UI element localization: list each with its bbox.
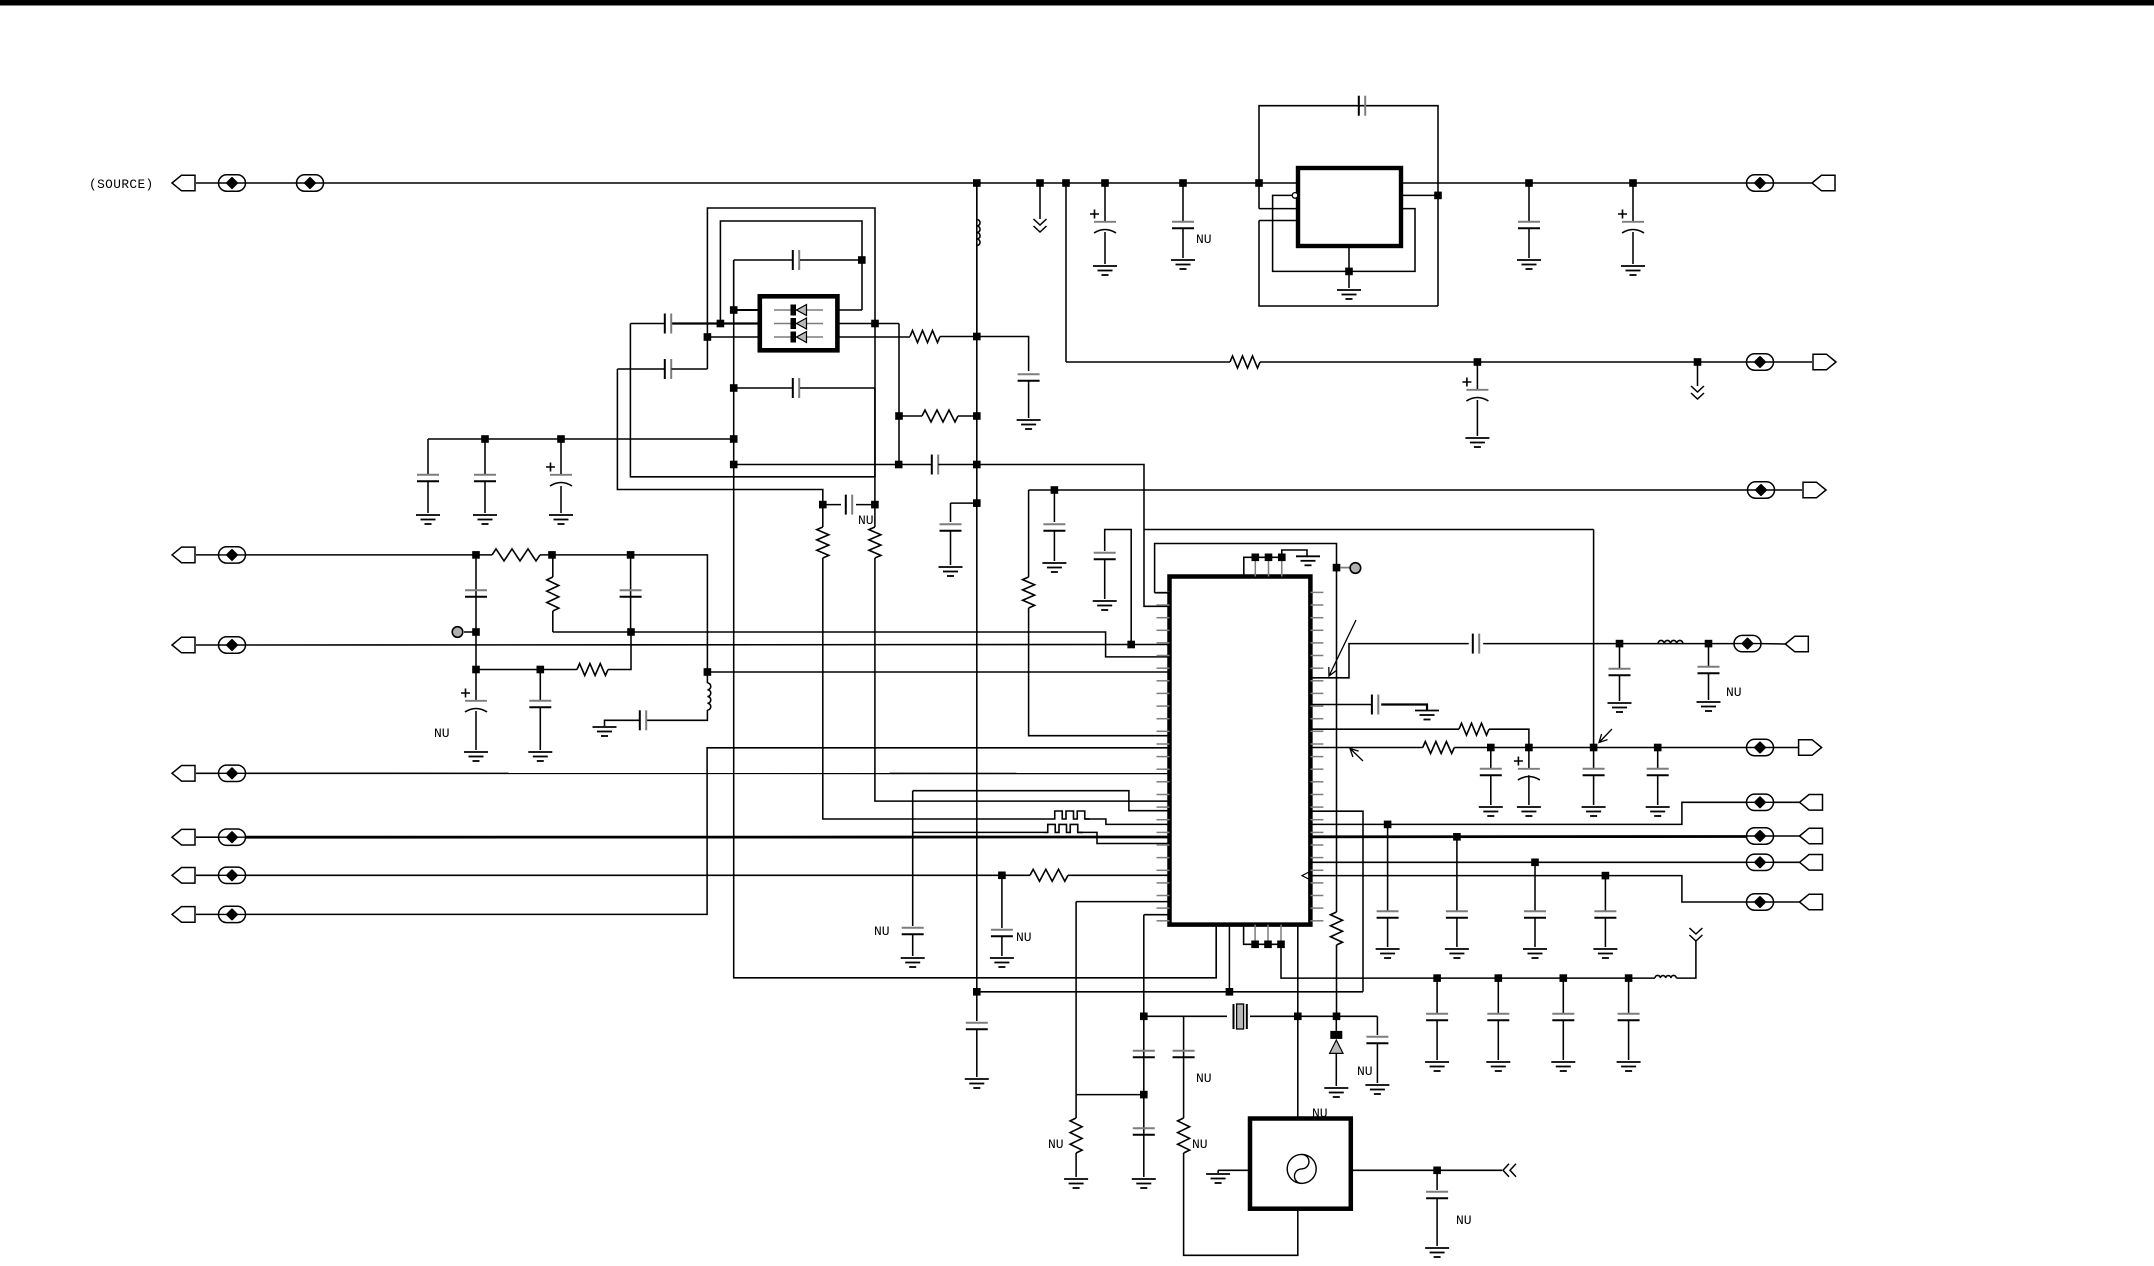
wire row7: [246, 748, 1170, 915]
ferrite bead FB17: [1747, 894, 1774, 910]
wire: [1436, 978, 1438, 1013]
wire: [475, 670, 477, 701]
wire: [196, 644, 219, 646]
capacitor C5: [1359, 96, 1365, 116]
junction: [1127, 641, 1135, 649]
svg-text:NU: NU: [1196, 1071, 1212, 1086]
wire: [428, 438, 734, 440]
wire row D: [1310, 876, 1747, 902]
resistor R12: [1423, 742, 1455, 754]
wire: [464, 631, 476, 633]
wire: [951, 502, 977, 504]
IC U1: [1170, 577, 1311, 925]
wire: [617, 369, 822, 505]
junction: [1616, 640, 1624, 648]
ferrite bead FB4: [1747, 354, 1774, 370]
capacitor C22: [529, 701, 551, 707]
capacitor C8: [793, 250, 799, 270]
wire: [1335, 1053, 1337, 1086]
ground: [1376, 949, 1400, 958]
capacitor C14: [474, 475, 496, 481]
wire: [1619, 675, 1621, 701]
wire: [560, 439, 562, 474]
svg-text:NU: NU: [1196, 232, 1212, 247]
wire: [1619, 644, 1621, 668]
wire: [1065, 183, 1067, 362]
ground: [528, 752, 552, 761]
junction: [1629, 179, 1637, 187]
junction: [1277, 941, 1285, 949]
wire pin: [1228, 925, 1230, 992]
junction: [704, 333, 712, 341]
junction: [871, 501, 879, 509]
junction: [472, 628, 480, 636]
capacitor C32: [1366, 1037, 1388, 1043]
junction: [973, 461, 981, 469]
junction: [819, 501, 827, 509]
capacitor: [1647, 769, 1669, 775]
capacitor C35: [1173, 1051, 1195, 1057]
ground: [1479, 807, 1503, 816]
junction: [895, 412, 903, 420]
junction: [1495, 974, 1503, 982]
wire pin: [1267, 925, 1269, 945]
wire: [1604, 918, 1606, 947]
wire: [672, 368, 708, 370]
junction: [627, 628, 635, 636]
wire: [1676, 941, 1696, 978]
wire row5 thick: [246, 836, 1170, 839]
connector right W2: [1799, 740, 1822, 756]
oscillator symbol: [1287, 1154, 1316, 1183]
wire: [912, 934, 914, 956]
capacitor C17: [940, 524, 962, 530]
wire: [1437, 977, 1655, 979]
wire: [1436, 1020, 1438, 1060]
wire: [1497, 1020, 1499, 1060]
wire IC pin: [1297, 925, 1299, 1017]
wire: [1489, 729, 1529, 747]
wire: [706, 672, 708, 683]
connector right A: [1800, 795, 1823, 811]
wire: [856, 504, 875, 506]
wire module right pin: [1351, 1169, 1502, 1171]
wire row3: [246, 644, 1170, 647]
connector right B: [1800, 828, 1823, 844]
wire: [1104, 232, 1106, 264]
wire: [976, 183, 978, 220]
ground: [473, 515, 497, 524]
junction: [1333, 564, 1341, 572]
junction: [1590, 744, 1598, 752]
wire: [1001, 875, 1003, 928]
wire: [1604, 876, 1606, 911]
ground: [1486, 1062, 1510, 1071]
capacitor C13: [417, 475, 439, 481]
wire: [1029, 489, 1748, 491]
capacitor C29: [1372, 695, 1378, 715]
wire: [1075, 902, 1077, 1118]
junction: [472, 551, 480, 559]
wire feedback loop: [1259, 106, 1438, 306]
wire: [734, 259, 792, 261]
wire pin: [1254, 925, 1256, 945]
probe arrow A2: [1350, 749, 1363, 762]
ground: [1425, 1248, 1449, 1257]
diode D2: [774, 323, 823, 325]
probe arrow A1: [1329, 620, 1356, 676]
wire: [1774, 182, 1813, 184]
ferrite bead FB7: [219, 637, 246, 653]
wire module top pin: [1297, 1016, 1299, 1118]
ferrite bead FB12: [1734, 635, 1761, 651]
wire: [733, 260, 735, 310]
wire: [1774, 901, 1800, 903]
inverter bubble pin: [1292, 193, 1298, 199]
junction: [973, 412, 981, 420]
wire: [605, 720, 640, 726]
wire: [912, 791, 914, 926]
wire: [1039, 183, 1041, 219]
IC pin stubs: [1157, 591, 1170, 593]
junction: [973, 179, 981, 187]
junction: [895, 461, 903, 469]
wire enable loop: [1273, 195, 1415, 271]
connector right top: [1812, 175, 1835, 191]
wire: [913, 791, 1170, 811]
junction: [1654, 744, 1662, 752]
wire: [1593, 748, 1595, 769]
capacitor C3: [1518, 222, 1540, 228]
ground: [1017, 420, 1041, 429]
wire: [1628, 1020, 1630, 1060]
junction: [1434, 192, 1442, 200]
junction: [1560, 974, 1568, 982]
resistor R8: [547, 577, 559, 611]
wire: [1076, 1094, 1144, 1096]
wire: [1053, 531, 1055, 561]
junction: [627, 551, 635, 559]
capacitor C16: [932, 455, 938, 475]
wire: [1335, 1016, 1337, 1031]
wire: [552, 611, 554, 632]
connector J5: [172, 829, 195, 845]
connector J2: [172, 547, 195, 563]
wire: [1657, 748, 1659, 769]
ground: [1582, 807, 1606, 816]
wire: [553, 632, 1170, 657]
wire: [1528, 775, 1530, 805]
power arrow: [1034, 219, 1047, 232]
wire row A: [1310, 802, 1747, 824]
junction: [1474, 358, 1482, 366]
wire: [539, 707, 541, 750]
wire: [899, 415, 922, 417]
wire: [874, 505, 876, 527]
wire: [476, 669, 577, 671]
wire riser: [1593, 530, 1595, 748]
wire: [1075, 1153, 1077, 1177]
wire: [1454, 747, 1747, 749]
wire: [1497, 978, 1499, 1013]
wire: [1144, 529, 1594, 531]
ground: [1206, 1174, 1230, 1183]
wire test point net: [1155, 544, 1337, 913]
wire: [1104, 559, 1106, 599]
wire: [1066, 361, 1230, 363]
wire: [1281, 944, 1437, 978]
wire long vertical 733: [734, 260, 1216, 978]
junction: [730, 461, 738, 469]
resistor R11: [1459, 723, 1489, 735]
diode D1: [774, 309, 823, 311]
wire module left pin: [1218, 1169, 1250, 1171]
junction: [973, 499, 981, 507]
power arrow: [1689, 928, 1702, 941]
ferrite bead FB1: [219, 175, 246, 191]
svg-text:NU: NU: [1048, 1137, 1064, 1152]
ferrite bead FB3: [1747, 175, 1774, 191]
wire: [1155, 592, 1170, 594]
ground: [1415, 711, 1439, 720]
wire: [1528, 228, 1530, 258]
wire: [874, 324, 876, 389]
capacitor C28 NU: [1698, 667, 1720, 673]
junction: [973, 333, 981, 341]
test point TP1: [452, 627, 463, 638]
junction: [1264, 941, 1272, 949]
ground: [416, 515, 440, 524]
wire: [950, 531, 952, 565]
wire row6: [246, 874, 1031, 876]
resistor R6: [869, 527, 881, 558]
capacitor C25 NU: [902, 928, 924, 934]
junction: [472, 666, 480, 674]
wire: [1144, 914, 1170, 916]
wire: [1001, 936, 1003, 956]
wire: [1381, 705, 1427, 711]
pulse waveform 1: [1051, 811, 1090, 819]
svg-text:NU: NU: [434, 726, 450, 741]
junction: [1140, 1091, 1148, 1099]
wire: [630, 324, 875, 477]
wire: [1053, 490, 1055, 522]
svg-text:NU: NU: [858, 513, 874, 528]
junction: [730, 435, 738, 443]
capacitor C2 NU: [1172, 222, 1194, 228]
wire: [427, 481, 429, 513]
junction: [704, 668, 712, 676]
wire: [1085, 819, 1170, 824]
wire: [617, 368, 664, 370]
polarized capacitor C4: [1622, 221, 1644, 223]
ground: [1064, 1179, 1088, 1188]
wire pin3L: [707, 336, 759, 338]
capacitor: [1426, 1014, 1448, 1020]
capacitor: [1583, 769, 1605, 775]
wire: [976, 1029, 978, 1077]
capacitor C10: [665, 314, 671, 334]
wire: [800, 387, 875, 389]
ground: [1465, 438, 1489, 447]
capacitor C24 NU: [991, 930, 1013, 936]
wire: [1244, 557, 1282, 576]
wire: [1490, 748, 1492, 769]
wire: [246, 554, 493, 556]
ground: [1517, 260, 1541, 269]
ground: [1593, 949, 1617, 958]
ground: [593, 727, 617, 736]
wire: [484, 439, 486, 474]
junction: [1051, 486, 1059, 494]
wire VOUT: [1401, 182, 1747, 184]
junction: [973, 988, 981, 996]
wire: [1528, 748, 1530, 769]
junction: [1487, 744, 1495, 752]
connector right C: [1800, 855, 1823, 871]
wire: [822, 505, 824, 527]
connector right D: [1800, 894, 1823, 910]
capacitor C12: [1018, 374, 1040, 380]
wire: [706, 337, 708, 369]
wire: [1310, 728, 1459, 730]
wire: [1078, 832, 1170, 843]
wire: [1182, 183, 1184, 221]
junction: [1525, 744, 1533, 752]
wire: [1387, 918, 1389, 947]
ground: [1551, 1062, 1575, 1071]
junction: [730, 306, 738, 314]
ground: [939, 567, 963, 576]
wire: [1341, 567, 1351, 569]
wire: [874, 388, 876, 505]
junction: [730, 384, 738, 392]
ferrite bead FB9: [219, 829, 246, 845]
capacitor C31: [966, 1023, 988, 1029]
ground: [1093, 266, 1117, 275]
ferrite bead FB8: [219, 765, 246, 781]
ground: [1445, 949, 1469, 958]
wire: [1774, 801, 1800, 803]
junction: [998, 872, 1006, 880]
ground: [1132, 1179, 1156, 1188]
junction: [537, 666, 545, 674]
wire: [800, 259, 862, 261]
ground: [901, 958, 925, 967]
ground: [1093, 601, 1117, 610]
capacitor C19: [465, 590, 487, 596]
svg-text:NU: NU: [1456, 1213, 1472, 1228]
wire: [1562, 978, 1564, 1013]
wire: [1076, 901, 1169, 903]
svg-text:NU: NU: [874, 924, 890, 939]
wire: [1310, 811, 1363, 992]
capacitor C9: [793, 378, 799, 398]
wire row C: [1310, 861, 1747, 863]
polarized capacitor C30: [1518, 768, 1540, 770]
wire: [1774, 747, 1799, 749]
wire: [1260, 361, 1747, 363]
junction: [1252, 554, 1260, 562]
wire: [1144, 1015, 1227, 1017]
wire: [1708, 673, 1710, 700]
wire loop bottom: [1259, 221, 1438, 307]
ground: [549, 515, 573, 524]
resistor R4: [922, 410, 958, 422]
wire pin1R: [837, 309, 862, 311]
wire: [1697, 362, 1699, 386]
junction: [1265, 554, 1273, 562]
wire pin3R: [837, 336, 910, 338]
ferrite bead FB14: [1747, 794, 1774, 810]
ground: [1324, 1088, 1348, 1097]
junction: [1036, 179, 1044, 187]
wire: [1387, 824, 1389, 911]
ground: [1296, 556, 1320, 565]
capacitor: [1618, 1014, 1640, 1020]
svg-text:NU: NU: [1016, 930, 1032, 945]
wire: [196, 913, 219, 915]
wire: [1182, 228, 1184, 258]
clock pin mark: [1302, 872, 1310, 880]
ground: [1042, 563, 1066, 572]
capacitor: [1446, 911, 1468, 917]
wire outer loop: [707, 208, 875, 337]
ground: [1608, 703, 1632, 712]
wire pin: [1268, 557, 1270, 576]
capacitor C33: [1133, 1051, 1155, 1057]
connector right: [1813, 354, 1836, 370]
svg-text:NU: NU: [1312, 1106, 1328, 1121]
junction: [1101, 179, 1109, 187]
wire: [1490, 775, 1492, 805]
wire: [707, 671, 1169, 673]
crystal Y1: [1234, 1004, 1247, 1029]
capacitor: [1487, 1014, 1509, 1020]
junction: [1062, 179, 1070, 187]
ground: [1517, 807, 1541, 816]
wire: [1376, 1016, 1378, 1035]
resistor R14 NU: [1178, 1118, 1190, 1153]
wire: [1562, 1020, 1564, 1060]
resistor R5: [817, 527, 829, 558]
wire: [1775, 489, 1803, 491]
junction: [1625, 974, 1633, 982]
wire: [196, 772, 219, 774]
wire: [1028, 490, 1030, 577]
capacitor C37: [1094, 553, 1116, 559]
resistor R2: [1230, 356, 1260, 368]
wire: [1476, 400, 1478, 436]
wire pin2L: [672, 322, 760, 324]
polarized capacitor C21 NU: [465, 700, 487, 702]
ground: [1425, 1062, 1449, 1071]
wire: [475, 632, 477, 670]
wire: [1534, 862, 1536, 911]
ferrite bead FB13: [1747, 739, 1774, 755]
wire: [1456, 837, 1458, 911]
wire: [1028, 381, 1030, 418]
wire: [734, 387, 792, 389]
wire: [1534, 918, 1536, 947]
wire: [1348, 271, 1350, 288]
capacitor C11: [665, 359, 671, 379]
resistor R7: [492, 549, 540, 561]
resistor R9: [577, 664, 608, 676]
wire: [898, 324, 900, 465]
capacitor C27: [1609, 669, 1631, 675]
wire: [1336, 945, 1338, 1016]
